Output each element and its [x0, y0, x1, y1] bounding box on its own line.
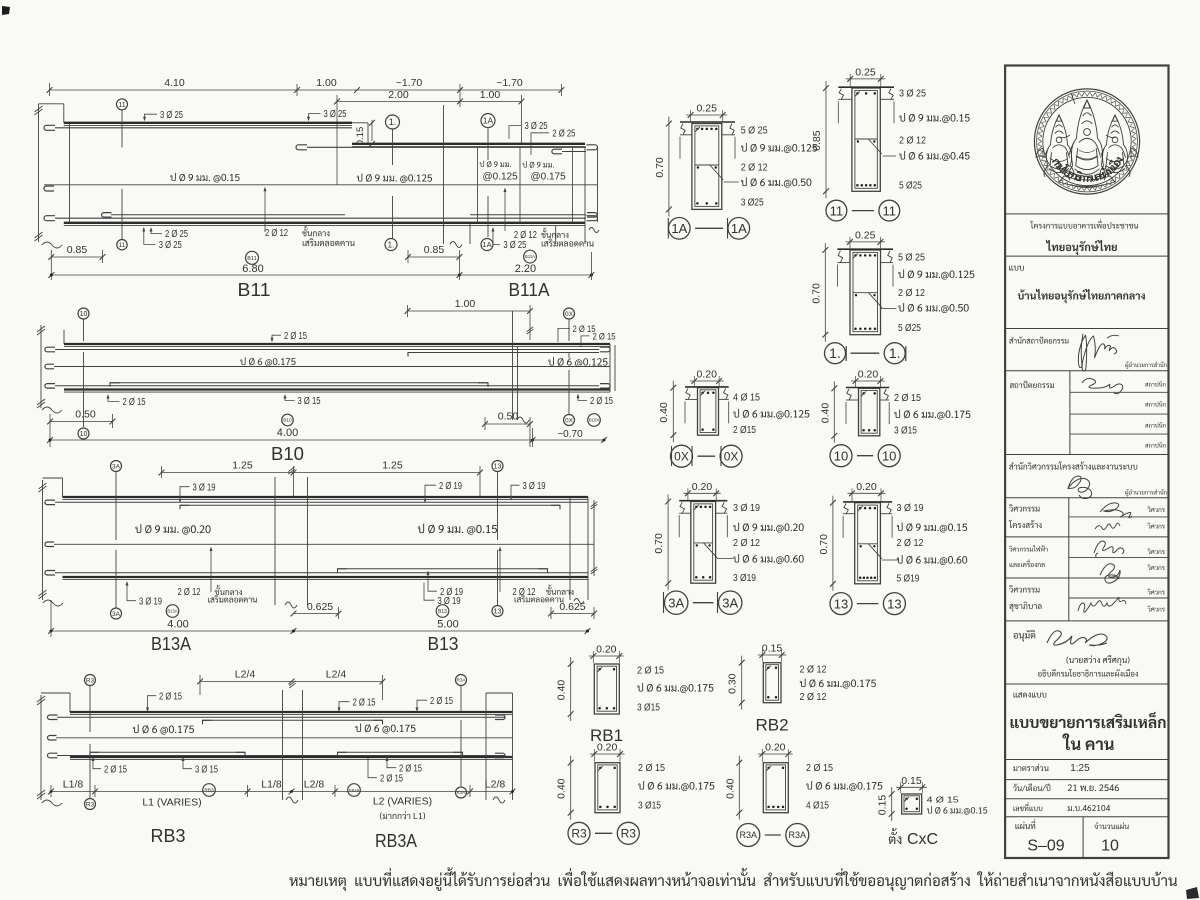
svg-text:1.: 1.	[829, 345, 841, 361]
svg-text:B10: B10	[271, 444, 304, 464]
svg-text:1.: 1.	[388, 240, 395, 249]
section 1A-1A middle bar line	[695, 164, 719, 166]
B10 right support inner verticals	[512, 347, 514, 390]
stirrup label B11	[170, 173, 239, 183]
svg-text:3 Ø19: 3 Ø19	[733, 573, 756, 584]
section 13 line and circles	[497, 472, 499, 541]
B11A stepped top slab lines (0.15 step)	[352, 122, 368, 124]
svg-text:2 Ø 15: 2 Ø 15	[159, 691, 182, 702]
svg-text:0.20: 0.20	[856, 481, 877, 493]
svg-text:2 Ø 12: 2 Ø 12	[899, 136, 926, 147]
section 3A-3A middle bar line	[694, 542, 713, 544]
svg-text:0X: 0X	[565, 311, 574, 318]
svg-text:@0.125: @0.125	[483, 172, 519, 183]
svg-text:RB3A: RB3A	[349, 787, 360, 792]
RB3 top dimension L2/4 L2/4	[200, 681, 383, 683]
svg-text:5 Ø 25: 5 Ø 25	[898, 253, 926, 264]
B11A right end support	[555, 226, 557, 244]
B13 dimension 0.625 right	[551, 613, 594, 615]
svg-text:2 Ø 15: 2 Ø 15	[104, 764, 127, 775]
B10 top dimension 1.00	[408, 310, 531, 312]
B10 main bottom dimension 4.00 / ~0.70	[50, 439, 604, 441]
svg-text:13: 13	[494, 464, 502, 471]
section 3A-3A width dimension 0.20	[683, 492, 720, 494]
svg-text:3A: 3A	[668, 595, 684, 610]
seal pedestal	[1059, 176, 1115, 187]
svg-text:13: 13	[834, 596, 848, 611]
B11A interior hanger lines	[477, 147, 479, 223]
section CxC outline	[902, 794, 922, 814]
section 3A-3A height dimension 0.70	[667, 495, 669, 591]
svg-text:B13: B13	[428, 634, 459, 654]
B10 left support wall	[40, 325, 42, 408]
B13 span extra bottom bar	[338, 569, 347, 573]
svg-text:B11: B11	[238, 280, 271, 300]
svg-text:0.20: 0.20	[858, 369, 879, 381]
RB3 top rebar with hooks	[48, 715, 58, 720]
svg-text:L2/4: L2/4	[326, 669, 347, 681]
svg-text:R3A: R3A	[740, 830, 758, 840]
engineering head signature	[1068, 476, 1092, 499]
section RB2 outline	[763, 663, 781, 703]
svg-text:11: 11	[119, 242, 126, 249]
svg-text:R3: R3	[86, 677, 95, 684]
B13A extra top bar 3Ø19	[180, 505, 189, 509]
B10 bottom dimension 0.50 right	[485, 423, 530, 425]
svg-text:10: 10	[80, 431, 88, 438]
svg-text:RB3: RB3	[204, 788, 214, 794]
section line and circles 1A-1A	[487, 128, 489, 160]
label joist CxC title	[889, 828, 901, 844]
svg-text:RB3A: RB3A	[375, 831, 417, 851]
RB3 beam bottom lines	[70, 756, 513, 758]
B10 bottom rebar with hooks	[45, 384, 55, 389]
RB3 stirrup label	[133, 724, 194, 734]
svg-text:0.50: 0.50	[498, 411, 519, 423]
B11 bottom dimension 0.85 left	[51, 256, 102, 258]
structural engineer signature 1	[1100, 503, 1132, 518]
svg-text:R3: R3	[86, 801, 95, 808]
section 10 line and circles	[83, 319, 85, 341]
B13 bottom rebar with hooks	[45, 571, 55, 576]
section 1.-1. width dimension 0.25	[846, 241, 886, 243]
svg-text:13: 13	[494, 609, 502, 616]
section 11-11 width dimension 0.25	[846, 78, 886, 80]
svg-text:0.20: 0.20	[597, 742, 618, 754]
section 1.-1. outline	[850, 250, 881, 335]
svg-text:~0.70: ~0.70	[557, 429, 583, 440]
title block row: plan name	[1009, 265, 1024, 270]
stirrup label B11A left part	[357, 173, 432, 183]
svg-text:2 Ø 15: 2 Ø 15	[638, 763, 666, 774]
svg-text:2 Ø 15: 2 Ø 15	[380, 773, 403, 784]
svg-text:2 Ø 15: 2 Ø 15	[637, 666, 665, 677]
B13A stirrup label	[135, 524, 210, 534]
middle support wall between B11 and B11A	[443, 105, 445, 244]
svg-text:2 Ø 12: 2 Ø 12	[897, 538, 924, 549]
section 13-13 width dimension 0.20	[848, 492, 886, 494]
section CxC height dimension 0.15	[891, 787, 893, 821]
svg-text:3A: 3A	[722, 595, 738, 610]
svg-text:2 Ø 12: 2 Ø 12	[178, 587, 201, 598]
B13 beam bottom lines	[63, 576, 589, 578]
section mark 13-13	[830, 593, 852, 615]
svg-text:2 Ø 12: 2 Ø 12	[733, 538, 760, 549]
section 3A-3A rebar dots	[695, 506, 698, 509]
svg-text:2 Ø15: 2 Ø15	[733, 425, 756, 436]
svg-text:CxC: CxC	[907, 831, 938, 848]
svg-text:2 Ø 15: 2 Ø 15	[590, 396, 613, 407]
title block row: sheet number	[1015, 819, 1035, 829]
bottom note text	[289, 867, 1176, 891]
svg-text:L1/8: L1/8	[261, 779, 282, 791]
section 11-11 outline	[852, 88, 880, 191]
RB3A center support	[282, 690, 284, 800]
beam B11A second dimension row 2.00/1.00	[337, 100, 522, 102]
section 13-13 stirrup leader	[882, 559, 898, 561]
section CxC width dimension 0.15	[896, 786, 927, 788]
section 0X-0X width dimension 0.20	[690, 380, 724, 382]
svg-text:5 Ø25: 5 Ø25	[898, 323, 921, 334]
svg-text:0.85: 0.85	[811, 130, 823, 151]
section mark R3-R3	[568, 822, 590, 844]
section RB1 outline	[594, 664, 619, 714]
svg-text:4.10: 4.10	[164, 77, 185, 89]
svg-text:11: 11	[883, 203, 897, 218]
svg-text:~1.70: ~1.70	[496, 77, 523, 89]
B10 right support wall	[512, 311, 514, 420]
sanitary engineer signature	[1078, 597, 1126, 612]
svg-text:0.40: 0.40	[724, 778, 736, 799]
B10 beam bottom lines	[64, 388, 610, 390]
svg-text:10: 10	[882, 448, 896, 463]
section 13-13 outline	[855, 503, 881, 584]
section 1.-1. rebar dots	[854, 254, 857, 257]
svg-text:0.15: 0.15	[901, 775, 922, 787]
svg-text:0.20: 0.20	[596, 644, 617, 656]
B13 extra top bar	[293, 504, 560, 506]
B11 middle stirrup line	[44, 186, 54, 191]
B10 cantilever top rebar	[408, 353, 418, 357]
title block row: project name	[1005, 213, 1168, 215]
svg-text:0.85: 0.85	[67, 244, 88, 256]
structural engineer signature 2	[1095, 523, 1120, 529]
svg-text:4.00: 4.00	[277, 427, 298, 439]
section mark 0X-0X	[671, 445, 693, 467]
svg-text:2 Ø 19: 2 Ø 19	[439, 481, 462, 492]
svg-text:2.20: 2.20	[515, 263, 536, 275]
svg-text:2 Ø 12: 2 Ø 12	[800, 665, 827, 676]
svg-text:5 Ø 25: 5 Ø 25	[741, 126, 769, 137]
svg-text:3 Ø 19: 3 Ø 19	[139, 596, 162, 607]
svg-text:L2 (VARIES): L2 (VARIES)	[373, 796, 432, 808]
section 10-10 height dimension 0.40	[833, 381, 835, 443]
section 1A-1A outline	[692, 124, 722, 210]
svg-text:3 Ø 25: 3 Ø 25	[525, 121, 548, 132]
B13 center support	[274, 477, 276, 605]
B11 beam bottom outline lines	[64, 222, 585, 224]
title block row: scale	[1013, 764, 1048, 771]
B10 top rebar 2Ø15 with hooks	[45, 347, 55, 352]
section R3-R3 rebar dots	[599, 767, 602, 770]
svg-text:R3A: R3A	[457, 790, 466, 795]
seal deity figures	[1068, 100, 1087, 180]
B10 bottom dimension 0.50 left	[50, 421, 113, 423]
svg-text:2 Ø 15: 2 Ø 15	[353, 697, 376, 708]
title block row: drawing title	[1014, 692, 1047, 697]
svg-text:3 Ø 19: 3 Ø 19	[193, 482, 216, 493]
title block row: architecture signatures grid	[1010, 381, 1054, 388]
seal deity flourishes	[1036, 148, 1043, 157]
section 1A-1A stirrup leader	[724, 181, 739, 183]
svg-text:B11A: B11A	[525, 254, 535, 259]
title block row: drawing number	[1013, 802, 1042, 811]
section 10-10 slab lines	[846, 387, 889, 389]
svg-text:0X: 0X	[565, 417, 574, 424]
section 1.-1. height dimension 0.70	[824, 243, 826, 342]
scan corner artifacts	[2, 6, 10, 15]
svg-text:10: 10	[834, 448, 848, 463]
svg-text:0.30: 0.30	[727, 673, 739, 694]
mechanical engineer signature	[1100, 564, 1120, 583]
svg-text:3 Ø 15: 3 Ø 15	[298, 396, 321, 407]
svg-text:B10: B10	[283, 418, 292, 424]
svg-text:5.00: 5.00	[437, 619, 458, 631]
svg-text:0.40: 0.40	[556, 680, 568, 701]
svg-text:3 Ø 25: 3 Ø 25	[899, 89, 927, 100]
svg-text:2 Ø 15: 2 Ø 15	[806, 763, 834, 774]
section RB2 rebar dots	[767, 666, 770, 669]
section 10-10 width dimension 0.20	[851, 380, 885, 382]
RB3 bottom rebar	[48, 753, 58, 758]
svg-text:3A: 3A	[112, 463, 121, 470]
svg-text:S–09: S–09	[1027, 838, 1064, 855]
section 13-13 middle bar line	[858, 543, 878, 545]
svg-text:3 Ø15: 3 Ø15	[637, 703, 660, 714]
svg-text:B13: B13	[438, 609, 447, 615]
section 11-11 rebar dots	[856, 92, 859, 95]
svg-text:3 Ø15: 3 Ø15	[894, 426, 917, 437]
svg-text:1.: 1.	[389, 117, 397, 127]
section 1A-1A height dimension 0.70	[668, 117, 670, 217]
svg-text:L1/8: L1/8	[63, 779, 84, 791]
svg-text:0.70: 0.70	[653, 533, 665, 554]
svg-text:1A: 1A	[671, 221, 687, 236]
svg-text:L2/4: L2/4	[235, 669, 256, 681]
section 11-11 stirrup leader	[883, 155, 896, 157]
svg-text:0.40: 0.40	[556, 778, 568, 799]
svg-text:1A: 1A	[482, 240, 491, 249]
svg-text:10: 10	[1101, 838, 1119, 855]
section 13-13 slab lines	[843, 501, 892, 503]
section 10-10 rebar dots	[862, 392, 865, 395]
svg-text:4 Ø 15: 4 Ø 15	[927, 795, 959, 805]
svg-text:2 Ø 15: 2 Ø 15	[284, 331, 307, 342]
section 0X-0X rebar dots	[701, 392, 704, 395]
svg-text:2.00: 2.00	[388, 89, 409, 101]
electrical engineer signature	[1094, 541, 1124, 557]
svg-text:3 Ø 25: 3 Ø 25	[503, 240, 526, 251]
B13 top dimension 1.25 / 1.25	[162, 472, 481, 474]
B13 stirrup label	[418, 524, 497, 535]
stirrup two-line labels in B11A	[480, 161, 511, 168]
svg-text:3 Ø 25: 3 Ø 25	[324, 109, 347, 120]
title block row: approval	[1013, 630, 1035, 642]
svg-text:3 Ø 19: 3 Ø 19	[897, 503, 924, 514]
svg-text:0.40: 0.40	[819, 403, 831, 424]
svg-text:3 Ø 25: 3 Ø 25	[160, 110, 183, 121]
main bottom dimension 6.80 / 2.20	[51, 274, 591, 276]
svg-text:1:25: 1:25	[1070, 763, 1090, 774]
title block row: date	[1013, 783, 1050, 791]
svg-text:1.00: 1.00	[316, 77, 337, 89]
B10 beam top slab lines	[64, 343, 610, 345]
svg-text:@0.175: @0.175	[531, 172, 567, 183]
RB3A span extra bottom bar	[338, 752, 347, 756]
RB3 beam top lines	[70, 711, 513, 713]
section RB1 height dimension 0.40	[570, 657, 572, 721]
section line and circles 11-11	[121, 110, 123, 148]
RB3 middle stirrup line	[48, 736, 57, 741]
svg-text:0.625: 0.625	[307, 601, 333, 613]
svg-text:0.85: 0.85	[424, 244, 445, 256]
svg-text:0.40: 0.40	[658, 402, 670, 423]
architect head signature	[1078, 334, 1116, 371]
svg-text:2 Ø 15: 2 Ø 15	[123, 397, 146, 408]
section R3A-R3A rebar dots	[767, 767, 770, 770]
svg-text:B13A: B13A	[167, 609, 177, 614]
section R3 line and circles	[89, 686, 91, 732]
svg-text:R3A: R3A	[789, 830, 807, 840]
RB3A stirrup label	[355, 724, 415, 734]
svg-text:0.15: 0.15	[762, 643, 783, 655]
section 3A-3A outline	[691, 502, 716, 584]
section 10-10 outline	[859, 388, 880, 436]
beam B11/B11A top dimension line 4.10/1.00/~1.70/~1.70	[50, 89, 562, 91]
section mark 11-11	[826, 200, 847, 221]
svg-text:1.00: 1.00	[455, 298, 476, 310]
svg-text:2 Ø 12: 2 Ø 12	[800, 692, 827, 703]
B10 second bottom rebar	[110, 383, 120, 387]
section mark 1.-1.	[825, 343, 846, 364]
svg-text:0.20: 0.20	[765, 742, 786, 754]
section 3A line and circles	[115, 472, 117, 541]
section R3A line and circles	[460, 686, 462, 712]
B11 beam outline top slab lines	[64, 122, 352, 124]
section 11-11 slab lines	[838, 86, 894, 88]
svg-text:L2/8: L2/8	[485, 779, 506, 791]
B10 stirrup label	[240, 357, 295, 366]
svg-text:2 Ø 12: 2 Ø 12	[741, 163, 768, 174]
section 13-13 rebar dots	[859, 507, 862, 510]
svg-text:3 Ø 25: 3 Ø 25	[159, 240, 182, 251]
svg-text:1.25: 1.25	[382, 460, 403, 472]
section 1A-1A width dimension 0.25	[686, 114, 727, 116]
section 11-11 middle bar line	[855, 138, 877, 140]
section R3-R3 height dimension 0.40	[570, 756, 572, 820]
svg-text:0.25: 0.25	[696, 103, 717, 115]
section mark 1A-1A	[669, 218, 691, 240]
B10 right end edge	[609, 344, 611, 392]
department seal emblem	[1034, 89, 1139, 194]
svg-text:3 Ø 15: 3 Ø 15	[195, 764, 218, 775]
svg-text:L1 (VARIES): L1 (VARIES)	[142, 797, 201, 809]
svg-text:0X: 0X	[724, 450, 739, 464]
RB3 span extra bottom bar	[90, 752, 99, 756]
svg-text:~1.70: ~1.70	[396, 77, 423, 89]
svg-text:0.15: 0.15	[877, 795, 889, 816]
RB3 extra top bar over support	[203, 720, 212, 724]
B11 second bottom rebar 3Ø25	[102, 213, 112, 218]
svg-text:6.80: 6.80	[242, 263, 263, 275]
svg-text:0.70: 0.70	[654, 157, 666, 178]
svg-text:4 Ø15: 4 Ø15	[806, 801, 829, 812]
section 1.-1. stirrup leader	[881, 308, 896, 310]
seal arc text	[1052, 158, 1060, 166]
section RB2 height dimension 0.30	[741, 656, 743, 710]
title block outer border	[1005, 66, 1168, 859]
B11A top rebar 3Ø25 at stepped level	[296, 145, 307, 150]
svg-text:0.50: 0.50	[75, 409, 96, 421]
B11A bottom dimension 0.85	[408, 256, 459, 258]
svg-text:2 Ø 25: 2 Ø 25	[165, 229, 188, 240]
svg-text:13: 13	[887, 596, 901, 611]
B10 middle stirrup line	[45, 364, 54, 369]
RB3 bottom dimension line	[51, 791, 513, 793]
B11A second top rebar 2Ø25	[552, 149, 562, 154]
section R3A-R3A outline	[763, 763, 788, 813]
svg-text:3 Ø15: 3 Ø15	[638, 801, 661, 812]
B10X stirrup label	[548, 357, 607, 367]
B13 main bottom dimension 4.00 / 5.00	[51, 630, 588, 632]
B13 middle stirrup line	[45, 542, 54, 547]
section mark 10-10	[830, 445, 852, 467]
svg-text:10: 10	[80, 311, 88, 318]
svg-text:0.15: 0.15	[355, 127, 366, 146]
svg-text:RB2: RB2	[755, 716, 788, 735]
section CxC rebar dots	[905, 798, 908, 801]
svg-text:5 Ø25: 5 Ø25	[899, 181, 922, 192]
svg-text:L2/8: L2/8	[304, 779, 325, 791]
section 0X-0X height dimension 0.40	[672, 381, 674, 443]
section 1A-1A slab lines	[680, 121, 735, 123]
svg-text:5 Ø19: 5 Ø19	[897, 574, 920, 585]
section 1.-1. slab lines	[837, 248, 893, 250]
svg-text:1A: 1A	[483, 116, 494, 126]
svg-text:3 Ø 19: 3 Ø 19	[733, 503, 760, 514]
svg-text:2 Ø 12: 2 Ø 12	[898, 288, 925, 299]
B13A left support wall	[42, 480, 44, 600]
title block row: engineering bureau	[1009, 461, 1137, 469]
section 3A-3A slab lines	[679, 500, 727, 502]
svg-text:0.25: 0.25	[855, 229, 876, 241]
svg-text:4.00: 4.00	[167, 619, 188, 631]
section 0X-0X slab lines	[685, 386, 729, 388]
svg-text:R3: R3	[621, 827, 637, 841]
section 11-11 height dimension 0.85	[825, 81, 827, 198]
svg-text:0.70: 0.70	[818, 534, 830, 555]
B13 top rebar with hooks	[45, 500, 55, 505]
svg-text:2 Ø 12: 2 Ø 12	[265, 228, 288, 239]
svg-text:3 Ø 19: 3 Ø 19	[523, 481, 546, 492]
svg-text:1.: 1.	[889, 345, 901, 361]
B11 bottom rebar with hooks	[44, 216, 55, 221]
B11 top rebar 3Ø25 with end hooks	[44, 125, 55, 130]
section line and circles 1.-1.	[392, 130, 394, 166]
svg-text:0.625: 0.625	[559, 601, 585, 613]
RB3 left support wall	[40, 695, 42, 800]
section 1.-1. middle bar line	[853, 292, 878, 294]
